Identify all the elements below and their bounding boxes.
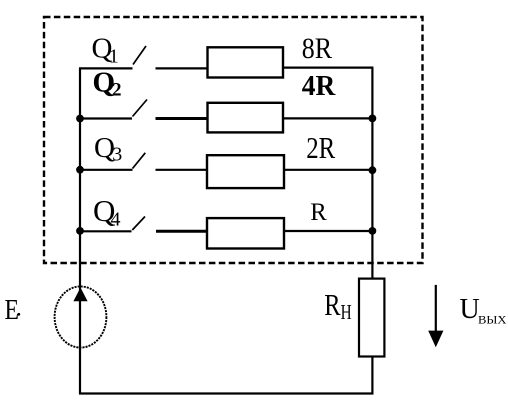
node dot left row2 [76,115,84,123]
svg-text:1: 1 [109,46,119,68]
node dot left row3 [76,166,84,174]
wire row1 stub [156,67,208,69]
svg-text:ВЫХ: ВЫХ [478,312,507,326]
wire row3 right [284,169,372,171]
switch Q1 blade [133,46,146,65]
node dot left row4 [76,227,84,235]
wire row2 right [283,117,372,119]
resistor R [207,218,284,248]
svg-text:2: 2 [112,80,122,101]
svg-text:U: U [460,294,480,325]
wire row1 right [283,66,373,68]
load resistor RH [359,279,384,357]
node dot right row3 [369,166,377,174]
svg-text:R: R [310,199,327,226]
current source E circle [55,286,107,347]
resistor 4R [208,103,284,133]
output voltage arrow [435,285,437,332]
wire row3 left [79,169,133,171]
node dot right row2 [369,115,377,123]
svg-text:4R: 4R [302,70,336,102]
resistor 8R [208,47,284,77]
wire row2 left [79,117,132,119]
wire: left bus from row1 down through source to bottom [79,68,81,393]
svg-text:8R: 8R [302,32,332,65]
svg-text:3: 3 [112,144,122,166]
resistor 2R [207,155,284,188]
dashed network box [44,17,423,263]
speck after E [17,313,20,316]
svg-text:E: E [5,295,20,326]
svg-text:Н: Н [341,300,352,324]
node dot right row4 [369,227,377,235]
wire: RH bottom to return [371,357,373,395]
switch Q3 blade [133,153,146,169]
wire row4 left [79,230,132,232]
wire row1 left [79,67,133,69]
wire: right bus from row1 down to RH top [371,68,373,279]
switch Q4 blade [132,217,145,231]
svg-text:R: R [324,287,341,322]
switch Q2 blade [133,100,148,117]
current source arrowhead [73,288,87,302]
svg-text:2R: 2R [306,130,335,165]
svg-text:4: 4 [111,209,121,231]
wire row4 right [284,230,372,232]
wire row2 stub [156,117,208,120]
wire row3 stub [156,169,208,171]
wire row4 stub [156,230,207,233]
wire: bottom return [79,392,373,394]
